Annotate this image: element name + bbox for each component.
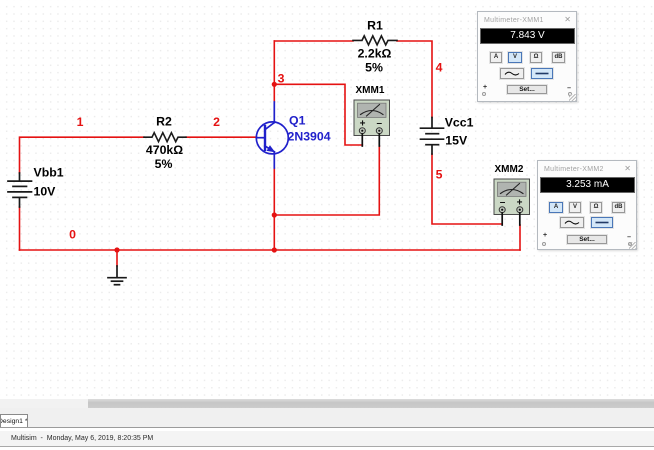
battery Vbb1 <box>8 173 32 207</box>
svg-text:Vbb1: Vbb1 <box>34 166 64 180</box>
svg-text:4: 4 <box>436 61 443 75</box>
wire node5 Vcc1 to XMM2 minus <box>432 154 502 224</box>
resistor R1 <box>353 36 397 45</box>
junction ground-rail <box>114 247 119 252</box>
wire node1 Vbb1-to-R2 <box>20 137 145 173</box>
svg-text:XMM1: XMM1 <box>356 85 385 96</box>
svg-text:2N3904: 2N3904 <box>288 130 331 144</box>
bottom chrome <box>0 399 654 408</box>
wire R1-to-Vcc1 node4 <box>397 41 432 118</box>
svg-text:R1: R1 <box>367 19 383 33</box>
svg-text:5%: 5% <box>155 157 173 171</box>
junction emitter-XMM1 <box>272 212 277 217</box>
svg-text:Q1: Q1 <box>289 114 306 128</box>
svg-text:R2: R2 <box>156 115 172 129</box>
resistor R2 <box>144 133 186 142</box>
transistor Q1 <box>256 102 288 168</box>
wire node0 bottom rail <box>20 249 521 251</box>
wire XMM2 plus down <box>519 225 521 250</box>
wire node3 collector riser <box>273 41 275 102</box>
svg-text:2: 2 <box>213 115 220 129</box>
junction node3 <box>272 82 277 87</box>
svg-text:5%: 5% <box>365 61 383 75</box>
multimeter icon XMM1 <box>354 100 390 146</box>
svg-text:5: 5 <box>436 168 443 182</box>
multimeter window XMM2 <box>537 160 637 250</box>
multimeter icon XMM2 <box>494 179 530 225</box>
svg-text:3: 3 <box>278 72 285 86</box>
ground <box>108 266 126 285</box>
wire XMM1 minus to emitter <box>274 146 379 215</box>
battery Vcc1 <box>421 118 444 155</box>
multimeter window XMM1 <box>477 11 577 102</box>
svg-text:Vcc1: Vcc1 <box>445 115 474 129</box>
svg-text:XMM2: XMM2 <box>495 164 524 175</box>
wire node3 branch to XMM1 plus <box>274 84 362 145</box>
wire emitter down <box>273 168 275 250</box>
svg-text:10V: 10V <box>34 185 57 199</box>
svg-text:2.2kΩ: 2.2kΩ <box>358 47 392 61</box>
wire node3 top to R1 <box>274 40 353 42</box>
svg-text:0: 0 <box>69 227 76 241</box>
junction emitter-rail <box>272 247 277 252</box>
svg-text:470kΩ: 470kΩ <box>146 143 183 157</box>
wire node0 Vbb1 down <box>19 207 21 250</box>
svg-text:15V: 15V <box>445 134 468 148</box>
wire ground stem <box>116 250 118 266</box>
svg-text:1: 1 <box>77 115 84 129</box>
wire node2 R2-to-base <box>186 136 257 138</box>
